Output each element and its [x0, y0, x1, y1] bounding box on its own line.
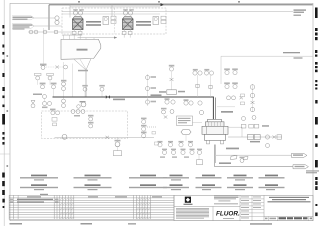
- filter unit B (hatched): [123, 17, 134, 30]
- wire to note top right: [62, 10, 293, 12]
- vessel CLSB500 (hopper): [61, 39, 101, 59]
- riser D: [220, 56, 222, 84]
- node riser A: [48, 5, 50, 30]
- note top right: [294, 9, 307, 15]
- line label left: [33, 94, 42, 96]
- dotted link: [147, 126, 157, 128]
- circles below bold line: [165, 98, 170, 100]
- unit A aux vessel: [103, 17, 109, 25]
- unit A label CLSB532-01/02: [86, 21, 101, 26]
- discharge header under units: [62, 34, 82, 36]
- table hatch marks: [60, 198, 151, 219]
- flow arrow on top line: [161, 3, 165, 6]
- valves under unit B: [122, 31, 126, 34]
- wire from connector 2: [33, 25, 62, 27]
- equipment description rows: [31, 175, 278, 177]
- sheet trim edge left: [3, 0, 5, 226]
- table header text / entries: [40, 194, 48, 195]
- instrument pairs above bold line: [193, 69, 198, 71]
- drawing title lines: [268, 197, 311, 203]
- dashed divider between trains: [114, 8, 116, 34]
- label CLSB504: [219, 162, 231, 164]
- vessel funnel outlet: [74, 59, 91, 71]
- bold drop to drum: [212, 97, 214, 119]
- row tags: [158, 141, 203, 158]
- unit B aux vessel: [153, 17, 159, 25]
- note right mid: [283, 52, 303, 59]
- bottom run to offpage: [215, 166, 293, 168]
- inline box (silencer): [167, 90, 177, 95]
- fold mark bottom left: [0, 153, 10, 155]
- skid2 discharge: [55, 136, 155, 138]
- wire from connector 1: [33, 17, 55, 19]
- instrument group above line: [82, 85, 88, 87]
- off-page connector 2: [293, 165, 309, 169]
- top-right outside note: [306, 170, 319, 173]
- right column instruments: [252, 84, 254, 112]
- bottom row of title block: [264, 216, 313, 218]
- line label CLSB500-02: [113, 99, 125, 101]
- off-page arrow outline 1: [12, 16, 34, 20]
- skid2 instruments: [50, 109, 56, 111]
- inlet instrument circles: [55, 16, 59, 20]
- valve X: [56, 66, 60, 69]
- skid2 pump: [62, 134, 67, 139]
- svg-text:FLUOR.: FLUOR.: [216, 210, 240, 217]
- branch to coolers: [216, 154, 292, 156]
- FLUOR diamond logo: [185, 197, 191, 203]
- revision table: [9, 195, 174, 219]
- bottom row near drum top: [227, 96, 231, 100]
- unit B instrument bubbles: [123, 9, 128, 10]
- wire top secondary: [70, 6, 160, 8]
- main process line top: [49, 4, 313, 6]
- valve on line: [106, 95, 110, 98]
- hexagon symbol: [181, 130, 191, 135]
- wire lower inlet row: [28, 31, 72, 33]
- title block: [174, 195, 313, 220]
- instrument circle: [64, 65, 68, 69]
- label CLSB503: [226, 148, 239, 150]
- signature grid: [240, 195, 264, 220]
- instrument rows below: [158, 143, 202, 155]
- wire third: [62, 13, 160, 15]
- drain symbol: [198, 155, 200, 160]
- wire dashed to valve: [46, 66, 64, 68]
- line label on line: [151, 94, 162, 96]
- cluster connecting wires: [38, 62, 73, 102]
- node riser B: [69, 5, 71, 18]
- grid reference ticks: [7, 1, 241, 167]
- company address lines: [214, 196, 239, 205]
- header to right side: [221, 55, 313, 57]
- bottom circles: [43, 102, 47, 106]
- right riser instruments: [147, 74, 149, 106]
- note box: [177, 116, 193, 126]
- dashed skid 2: [42, 111, 128, 139]
- valves under unit A: [72, 31, 76, 34]
- line under wordmark: [223, 217, 234, 220]
- tag instrument pair row: [35, 73, 42, 75]
- drum CLSB503: [199, 110, 233, 144]
- node riser C: [111, 5, 113, 16]
- unit B label CLSB532: [136, 21, 151, 26]
- vessel CLSB500 label: [77, 49, 88, 51]
- drawing number: [279, 217, 308, 219]
- instrument tag top: [40, 64, 47, 66]
- filter unit A (hatched): [73, 17, 84, 30]
- chain instruments: [61, 80, 66, 82]
- drum side wires: [217, 106, 235, 108]
- main bold line mid: [53, 96, 214, 98]
- funnel label: [78, 70, 88, 72]
- tag circles mid row: [40, 83, 46, 85]
- skid2 right chain: [88, 115, 94, 117]
- binder marks left edge: [2, 25, 5, 208]
- chain riser x144: [141, 118, 147, 120]
- stems and valves: [197, 75, 199, 97]
- skid2 circle chain top: [71, 110, 75, 114]
- off-page connector labels left: [13, 17, 33, 30]
- off-page arrow outline 2: [12, 24, 34, 29]
- inlet row instruments: [29, 30, 33, 34]
- pump small bottom-left: [81, 102, 86, 107]
- unit B small stack: [161, 16, 166, 19]
- relief valve symbol: [31, 101, 35, 104]
- wire drop to cluster: [43, 28, 45, 64]
- binder marks right edge: [315, 8, 318, 217]
- off-page connector 1: [292, 153, 308, 157]
- upper small row right: [241, 124, 246, 128]
- dashed skid boundary (filters package): [62, 8, 166, 34]
- disclaimer text block: [176, 208, 209, 219]
- unit A instrument bubbles: [73, 9, 78, 10]
- downcomer: [85, 70, 87, 97]
- single circle: [43, 95, 47, 99]
- drain line from drum: [213, 145, 215, 167]
- riser to inline box: [171, 72, 173, 90]
- instrument on cooler line: [240, 157, 245, 159]
- filters row right: [228, 136, 282, 138]
- footer texts: [10, 223, 273, 225]
- unit A small stack: [111, 16, 116, 19]
- right instrument chains: [224, 68, 230, 70]
- small symbols left of note box: [161, 108, 167, 110]
